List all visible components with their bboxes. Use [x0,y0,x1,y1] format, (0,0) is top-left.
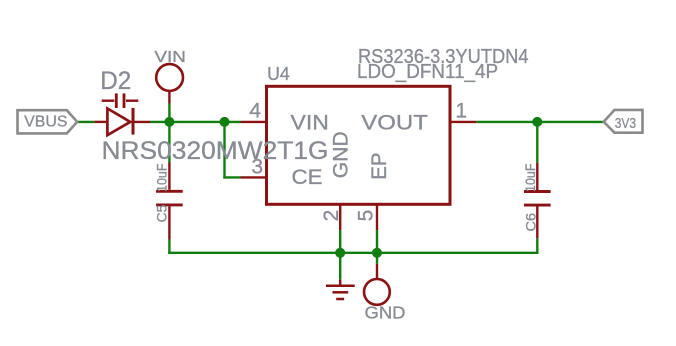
svg-text:10uF: 10uF [155,164,170,193]
svg-text:1: 1 [455,99,467,122]
svg-text:CE: CE [292,165,323,189]
svg-text:3V3: 3V3 [615,116,636,132]
svg-text:VBUS: VBUS [24,114,67,131]
svg-text:VIN: VIN [291,110,329,134]
svg-text:NRS0320MW2T1G: NRS0320MW2T1G [102,137,329,165]
svg-text:GND: GND [365,302,406,322]
svg-text:3: 3 [251,155,263,178]
svg-text:5: 5 [355,210,378,222]
svg-text:D2: D2 [100,67,131,95]
svg-text:GND: GND [329,131,353,178]
svg-text:C5: C5 [155,205,170,223]
svg-text:4: 4 [249,99,261,122]
svg-text:LDO_DFN11_4P: LDO_DFN11_4P [357,60,498,83]
svg-text:VIN: VIN [154,49,186,66]
svg-text:EP: EP [367,153,391,180]
svg-text:VOUT: VOUT [361,110,428,134]
svg-text:C6: C6 [523,213,538,232]
svg-text:10uF: 10uF [523,164,538,193]
svg-text:U4: U4 [267,64,290,84]
svg-text:2: 2 [320,210,343,222]
